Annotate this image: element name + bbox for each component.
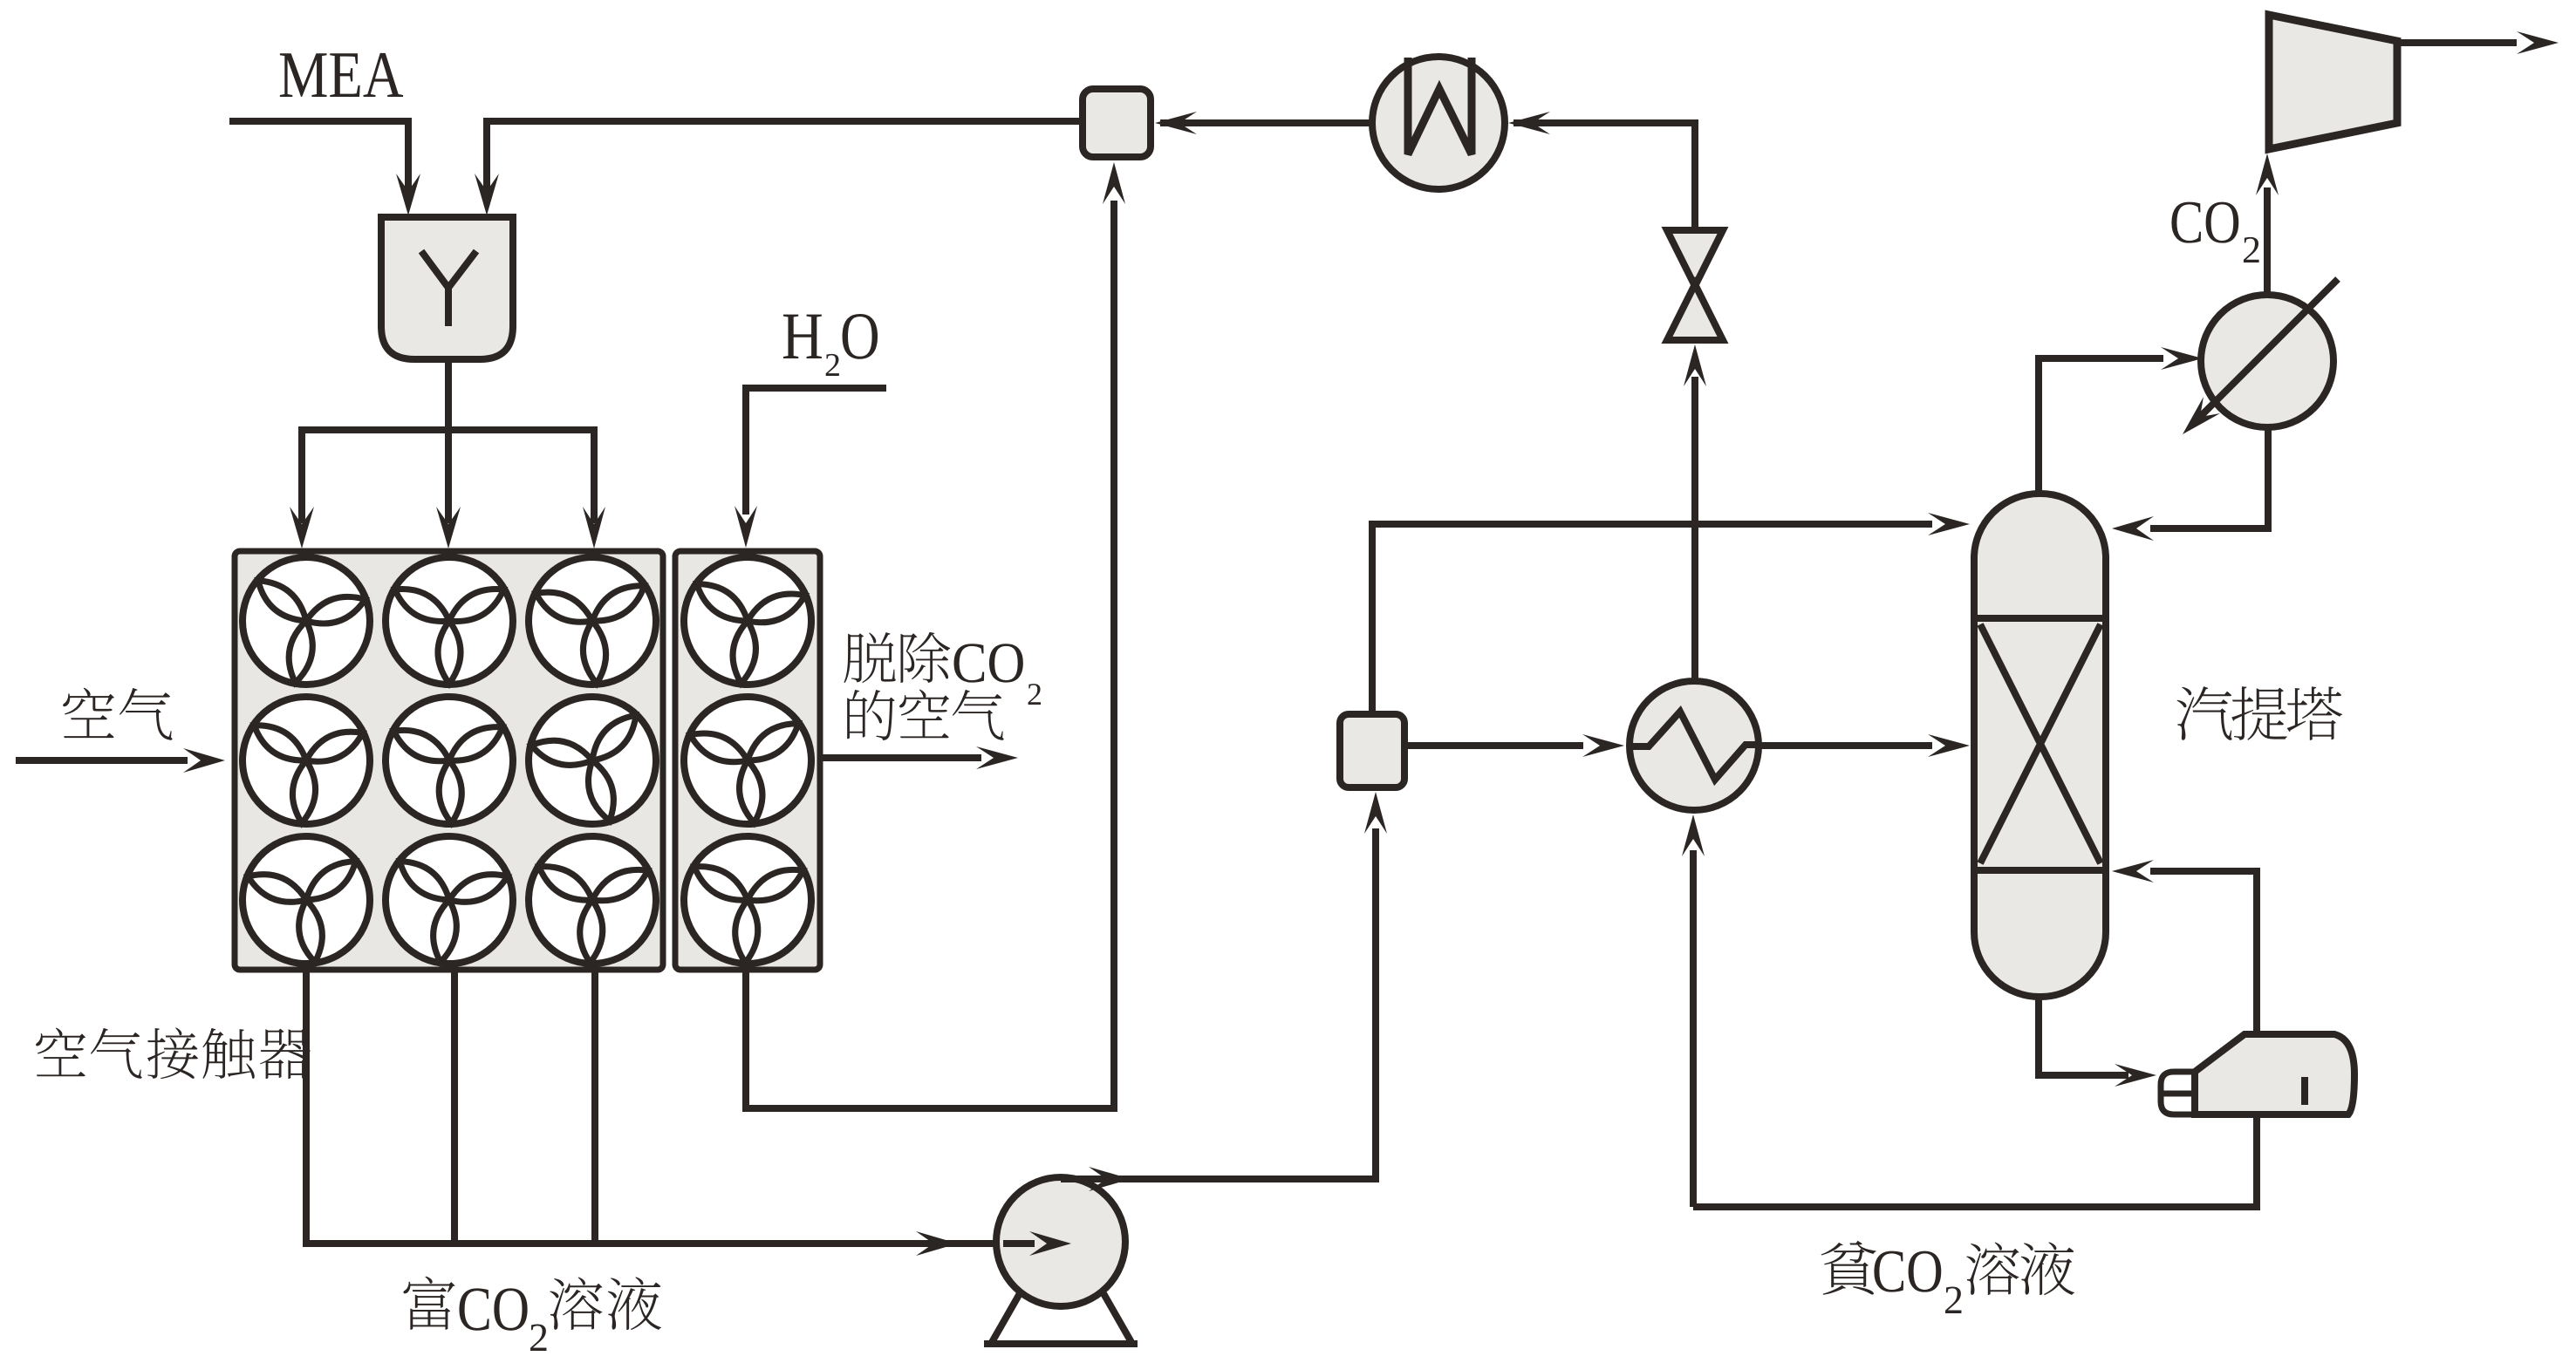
fan cell bank1 r3c2	[378, 828, 522, 972]
mixer Y symbol	[421, 251, 476, 288]
arrow into reboiler	[2115, 1064, 2156, 1087]
arrow into stripper top	[1928, 513, 1970, 535]
fan cell bank1 r3c1	[235, 828, 379, 972]
stripper packing top line	[1974, 615, 2106, 622]
wire H2O feed	[742, 385, 886, 392]
fan cell bank2 r2	[678, 691, 817, 830]
fan cell bank1 r3c3	[526, 834, 658, 965]
fan cell bank1 r1c1	[232, 547, 379, 694]
wire condenser return	[2265, 427, 2272, 532]
mixer vessel M1	[381, 217, 513, 359]
reboiler internal weir	[2301, 1077, 2308, 1105]
fan cell bank1 r2c2	[383, 694, 515, 826]
wire bank2 drain	[742, 970, 749, 1112]
arrow manifold drop 3	[591, 426, 598, 523]
junction box J1	[1083, 89, 1151, 157]
condenser diagonal	[2199, 279, 2338, 418]
arrow lean into mixer	[483, 179, 490, 196]
fan cell bank1 r1c2	[386, 557, 513, 685]
wire CO2 product	[2397, 39, 2517, 46]
wire reboiler vapor return	[2253, 868, 2260, 1034]
wire pump discharge	[1061, 1176, 1379, 1182]
HX1 zigzag	[1630, 712, 1759, 780]
wire rich drain 3	[591, 970, 598, 1247]
wire lean solution to mixer	[483, 118, 1086, 125]
wire lean into HX bottom	[1690, 850, 1697, 1207]
label air 空气	[63, 688, 114, 739]
wire J2 to HX	[1404, 742, 1583, 749]
stripper packing bottom line	[1974, 867, 2106, 874]
wire rich collector	[303, 1240, 1000, 1247]
fan cell bank1 r2c1	[238, 692, 374, 828]
reboiler neck	[2161, 1072, 2195, 1114]
arrow rich into junction J1	[1103, 162, 1125, 204]
arrow manifold drop 2	[445, 430, 452, 523]
label H2O	[783, 315, 822, 358]
compressor K1	[2269, 15, 2397, 149]
arrow into pump	[916, 1231, 958, 1256]
label 富CO2溶液	[403, 1277, 454, 1330]
arrow MEA into mixer	[405, 179, 412, 196]
wire valve to top run	[1691, 119, 1698, 230]
wire cold rich to stripper top	[1369, 521, 1932, 528]
arrow into valve	[1684, 344, 1706, 386]
fan cell bank2 r3	[681, 834, 813, 965]
arrow lean into HX	[1682, 814, 1705, 856]
arrow into condenser	[2161, 347, 2203, 370]
arrow reflux into stripper	[2112, 516, 2154, 541]
wire mixer outlet	[445, 356, 452, 433]
valve V1	[1667, 230, 1723, 286]
fan cell bank2 r1	[678, 551, 817, 691]
stripper column shell	[1974, 494, 2106, 997]
label 脱除CO2的空气	[844, 632, 895, 683]
overhead cooler E1	[1372, 57, 1505, 189]
label 汽提塔	[2176, 686, 2231, 740]
arrow into pump center	[1003, 1240, 1035, 1247]
label 贫CO2溶液	[1821, 1241, 1876, 1295]
arrow into junction J1 right	[1155, 112, 1197, 134]
fan cell bank1 r1c3	[524, 553, 660, 689]
condenser arrowhead	[2183, 397, 2220, 434]
wire rich drain 1	[303, 970, 310, 1247]
wire distribution manifold	[298, 426, 598, 433]
arrow into junction J2	[1364, 792, 1387, 834]
wire rich riser to junction J1	[1110, 201, 1117, 1108]
stripper packing X	[1980, 624, 2101, 863]
cooler E1 W symbol	[1408, 58, 1472, 154]
wire MEA feed	[229, 118, 412, 125]
label 空气接触器	[36, 1027, 85, 1076]
wire top run to cooler	[1513, 119, 1698, 126]
arrow stripper feed	[1928, 734, 1970, 757]
wire J2 riser to stripper top	[1369, 524, 1376, 714]
arrow CO2 product	[2517, 31, 2559, 54]
arrow into HX	[1582, 734, 1624, 757]
label MEA	[280, 53, 327, 97]
condenser E2	[2201, 295, 2333, 427]
air contactor bank 1 frame	[235, 551, 663, 970]
arrow H2O into contactor	[735, 506, 757, 548]
pump base	[991, 1289, 1022, 1344]
wire condenser to compressor	[2264, 187, 2271, 295]
wire cooler to junction J1	[1160, 119, 1372, 126]
label CO2	[2171, 202, 2201, 243]
wire lean solution run	[2253, 1114, 2260, 1210]
arrow pump discharge	[1089, 1167, 1131, 1191]
arrow air inlet	[16, 757, 188, 764]
junction box J2	[1340, 714, 1404, 787]
wire stripper bottoms	[2035, 997, 2042, 1079]
air contactor bank 2 frame	[675, 551, 820, 970]
wire HX top to valve	[1691, 377, 1698, 681]
fan cell bank1 r2c3	[514, 682, 672, 840]
pump P1	[996, 1177, 1125, 1306]
wire HX to stripper feed	[1759, 742, 1932, 749]
wire stripper overhead	[2035, 355, 2042, 497]
arrow manifold drop 1	[298, 426, 305, 523]
heat exchanger HX1	[1630, 681, 1759, 810]
arrow into cooler E1	[1508, 112, 1550, 134]
arrow treated air outlet	[820, 754, 981, 761]
reboiler B1 body	[2195, 1034, 2354, 1114]
arrow vapor into stripper	[2112, 860, 2154, 883]
wire rich drain 2	[451, 970, 458, 1247]
arrow into compressor	[2256, 153, 2279, 195]
